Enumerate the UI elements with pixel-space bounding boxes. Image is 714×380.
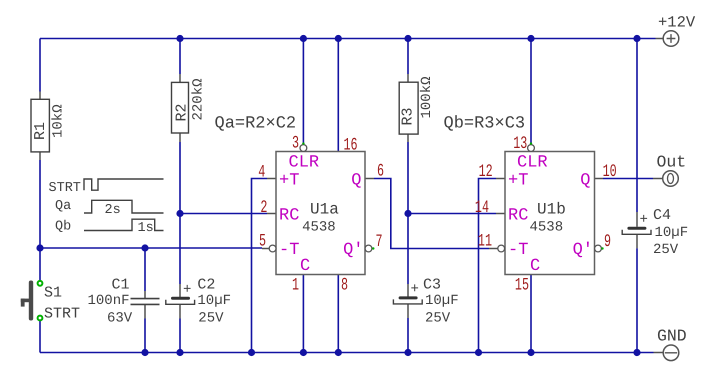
inversion bubble -T U1a — [269, 245, 276, 252]
stub +12V terminal — [656, 38, 663, 40]
svg-text:4538: 4538 — [302, 220, 336, 236]
wire U1a pin8 to GND — [337, 275, 339, 353]
svg-text:Qa=R2×C2: Qa=R2×C2 — [215, 114, 297, 133]
svg-text:63V: 63V — [107, 311, 133, 327]
svg-text:Qa: Qa — [55, 199, 71, 214]
svg-text:10µF: 10µF — [425, 293, 459, 309]
lead C1 bottom — [144, 305, 146, 319]
timing diagram — [49, 179, 164, 236]
svg-text:R2: R2 — [174, 103, 191, 121]
junction top rail C4 — [633, 35, 640, 42]
junction top rail pin16 — [335, 35, 342, 42]
svg-text:STRT: STRT — [49, 181, 81, 196]
junction top rail R2 — [176, 35, 183, 42]
capacitor C2 — [166, 277, 231, 327]
svg-text:U1b: U1b — [537, 200, 566, 218]
terminal +12V — [658, 14, 696, 47]
junction bottom rail C1 — [141, 349, 148, 356]
svg-text:R1: R1 — [32, 122, 49, 140]
svg-text:U1a: U1a — [310, 200, 339, 218]
stub U1a pin6 — [365, 178, 374, 180]
wire U1a pin16 to rail — [337, 39, 339, 152]
svg-text:220kΩ: 220kΩ — [191, 78, 207, 120]
junction bottom rail +T gnd U1a — [248, 349, 255, 356]
wire U1b +T to ground — [479, 179, 497, 353]
wire left column top (rail to R1) — [39, 39, 41, 92]
junction trigger node R1 — [36, 244, 43, 251]
svg-text:C2: C2 — [197, 277, 215, 294]
wire R2 column — [179, 39, 181, 353]
svg-text:9: 9 — [604, 232, 611, 252]
capacitor C1 — [88, 277, 160, 327]
svg-text:100kΩ: 100kΩ — [419, 76, 435, 118]
svg-text:Out: Out — [657, 153, 687, 172]
junction RC node U1a — [176, 210, 183, 217]
wire RC U1b row — [408, 213, 496, 215]
resistor R2 — [172, 78, 207, 133]
svg-text:RC: RC — [508, 207, 528, 226]
svg-text:7: 7 — [376, 232, 383, 252]
svg-text:STRT: STRT — [44, 306, 80, 323]
svg-text:+: + — [183, 282, 191, 298]
lead C4 top — [636, 212, 638, 227]
IC U1a 4538 — [258, 133, 384, 295]
svg-text:11: 11 — [478, 232, 492, 252]
stub U1a pin5 — [262, 248, 269, 250]
svg-text:S1: S1 — [44, 284, 62, 301]
svg-text:14: 14 — [475, 198, 489, 218]
junction top rail pin13 — [527, 35, 534, 42]
wire U1a pin3 CLR to rail — [302, 39, 304, 145]
svg-text:5: 5 — [259, 232, 266, 252]
svg-text:8: 8 — [341, 276, 348, 296]
lead R1 top — [39, 92, 41, 100]
stub U1b pin14 — [496, 213, 505, 215]
lead R2 bottom — [179, 133, 181, 142]
pin end marker green Q' U1a — [372, 247, 374, 249]
svg-text:10µF: 10µF — [655, 225, 689, 241]
lead C2 top — [179, 284, 181, 297]
stub U1a pin2 — [267, 213, 276, 215]
junction bottom rail pin8 — [335, 349, 342, 356]
resistor R1 — [31, 99, 67, 152]
inversion bubble CLR U1a — [300, 145, 307, 152]
svg-text:+T: +T — [279, 172, 299, 191]
svg-text:2s: 2s — [105, 203, 121, 218]
svg-text:10kΩ: 10kΩ — [51, 104, 67, 138]
lead R1 bottom — [39, 152, 41, 160]
svg-text:C1: C1 — [112, 277, 130, 294]
svg-text:C4: C4 — [653, 207, 671, 224]
svg-text:Q: Q — [351, 172, 361, 191]
stub U1b pin11 — [489, 248, 498, 250]
wire U1a Q to U1b -T — [374, 179, 489, 249]
waveform STRT — [84, 179, 164, 190]
svg-text:Qb: Qb — [55, 219, 71, 234]
junction bottom rail pin1 — [300, 349, 307, 356]
waveform Qb — [84, 219, 164, 230]
S1 terminal top — [38, 281, 43, 286]
svg-text:2: 2 — [260, 198, 267, 218]
resistor R3 — [399, 76, 435, 134]
lead C3 top — [407, 284, 409, 297]
svg-text:Q: Q — [580, 172, 590, 191]
svg-text:RC: RC — [279, 207, 299, 226]
svg-text:+T: +T — [508, 172, 528, 191]
pin end marker green Q' U1b — [601, 247, 603, 249]
svg-text:1s: 1s — [138, 221, 154, 236]
wire C4 column — [636, 39, 638, 353]
stub U1a pin4 — [267, 178, 276, 180]
junction top rail pin3 — [300, 35, 307, 42]
junction RC node U1b — [404, 210, 411, 217]
IC U1b 4538 — [475, 134, 617, 296]
wire S1 bottom to GND rail — [39, 321, 41, 353]
svg-text:13: 13 — [513, 134, 527, 154]
junction trigger node C1 — [141, 244, 148, 251]
junction bottom rail +T gnd U1b — [475, 349, 482, 356]
wire RC U1a row — [180, 213, 267, 215]
svg-text:C: C — [530, 257, 540, 276]
inversion bubble -T U1b — [498, 245, 505, 252]
component lead stubs (gray) — [40, 39, 663, 353]
inversion bubble Q' U1a — [365, 245, 372, 252]
S1 terminal bottom — [38, 316, 43, 321]
svg-text:15: 15 — [515, 276, 529, 296]
junction top rail R3 — [404, 35, 411, 42]
svg-text:+: + — [640, 212, 648, 228]
capacitor C3 — [393, 277, 458, 327]
wire U1a pin1 to GND — [302, 275, 304, 353]
svg-text:10µF: 10µF — [197, 293, 231, 309]
svg-text:CLR: CLR — [289, 154, 320, 173]
wire U1b pin13 CLR to rail — [530, 39, 532, 145]
pushbutton S1 — [21, 281, 80, 323]
svg-text:4: 4 — [258, 162, 265, 182]
lead C1 top — [144, 291, 146, 298]
svg-text:4538: 4538 — [530, 220, 564, 236]
junction bottom rail C2 — [176, 349, 183, 356]
waveform Qa — [84, 200, 164, 213]
pin end marker green CLR U1a — [302, 142, 304, 144]
junction bottom rail C4 — [633, 349, 640, 356]
terminal Out — [657, 153, 687, 187]
svg-text:+12V: +12V — [658, 14, 696, 32]
svg-text:-T: -T — [279, 241, 299, 260]
svg-text:CLR: CLR — [517, 154, 548, 173]
junction bottom rail C3 — [404, 349, 411, 356]
svg-text:GND: GND — [657, 327, 687, 346]
junction bottom rail pin15 — [527, 349, 534, 356]
lead R2 top — [179, 74, 181, 82]
wire C1 column — [144, 248, 146, 353]
svg-text:100nF: 100nF — [88, 293, 130, 309]
svg-text:6: 6 — [377, 162, 384, 182]
svg-text:Q': Q' — [573, 241, 593, 260]
capacitor C4 — [622, 207, 688, 258]
wire R3 column — [407, 39, 409, 353]
wire U1a +T to ground — [252, 179, 268, 353]
svg-text:16: 16 — [344, 135, 358, 155]
inversion bubble Q' U1b — [595, 245, 602, 252]
svg-text:12: 12 — [479, 162, 493, 182]
wire trigger row to U1a -T pin5 — [40, 247, 262, 249]
pin end marker green CLR U1b — [530, 142, 532, 144]
wire GND bottom rail — [40, 352, 654, 354]
lead C4 bottom — [636, 234, 638, 248]
wire +12V top rail — [40, 38, 656, 40]
svg-text:25V: 25V — [425, 311, 451, 327]
stub Out terminal — [653, 178, 662, 180]
svg-text:10: 10 — [603, 162, 617, 182]
svg-text:+: + — [411, 282, 419, 298]
svg-text:C: C — [300, 257, 310, 276]
wire U1b Q to Out — [603, 178, 653, 180]
wire trigger node to S1 top — [39, 248, 41, 281]
svg-text:C3: C3 — [423, 277, 441, 294]
svg-text:-T: -T — [508, 241, 528, 260]
svg-text:25V: 25V — [198, 311, 224, 327]
lead C2 bottom — [179, 305, 181, 319]
stub U1b pin10 — [595, 178, 604, 180]
svg-text:3: 3 — [292, 133, 299, 153]
terminal GND — [657, 327, 687, 361]
svg-text:Qb=R3×C3: Qb=R3×C3 — [444, 114, 526, 133]
wire R1 bottom to trigger node — [39, 160, 41, 248]
inversion bubble CLR U1b — [528, 145, 535, 152]
svg-text:1: 1 — [292, 276, 299, 296]
lead C3 bottom — [407, 304, 409, 318]
svg-text:Q': Q' — [343, 241, 363, 260]
stub U1b pin12 — [496, 178, 505, 180]
svg-text:25V: 25V — [653, 242, 679, 258]
lead R3 top — [407, 74, 409, 82]
wire U1b pin15 to GND — [530, 275, 532, 353]
lead R3 bottom — [407, 134, 409, 142]
stub GND terminal — [654, 352, 663, 354]
svg-text:R3: R3 — [400, 107, 417, 125]
